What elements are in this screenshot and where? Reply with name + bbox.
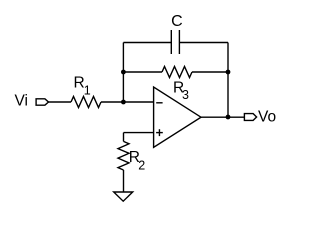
wire input (49, 101, 72, 103)
svg-text:3: 3 (182, 88, 189, 102)
resistor R3 (162, 67, 192, 78)
label R3 (173, 79, 189, 102)
terminal Vi (36, 99, 48, 105)
wire left vertical (122, 43, 124, 103)
wire plus input horizontal (124, 132, 154, 134)
capacitor C (171, 30, 179, 54)
wire output (201, 116, 244, 118)
wire top-right capacitor branch (179, 42, 228, 44)
svg-text:1: 1 (84, 83, 91, 97)
svg-text:Vi: Vi (14, 93, 28, 110)
node junction output (226, 115, 231, 120)
node junction right R3 (226, 70, 231, 75)
label R1 (74, 75, 91, 98)
wire R3 left (123, 71, 162, 73)
wire plus input vertical (123, 133, 125, 142)
plus sign non-inverting input (156, 129, 163, 136)
resistor R1 (71, 97, 101, 108)
svg-text:Vo: Vo (258, 109, 276, 126)
resistor R2 (118, 141, 129, 170)
minus sign inverting input (156, 102, 162, 104)
wire R2 to ground (123, 170, 125, 192)
label R2 (129, 149, 146, 172)
node junction left R3 (121, 70, 126, 75)
svg-text:2: 2 (138, 158, 145, 172)
wire R3 right (192, 71, 228, 73)
wire top-left capacitor branch (123, 42, 171, 44)
svg-text:C: C (171, 13, 183, 30)
wire R1 to op-amp (101, 101, 154, 103)
op-amp U1 (154, 87, 201, 147)
terminal Vo (244, 114, 256, 121)
node junction inverting input (121, 100, 126, 105)
wire right vertical (227, 43, 229, 118)
ground (114, 192, 133, 201)
